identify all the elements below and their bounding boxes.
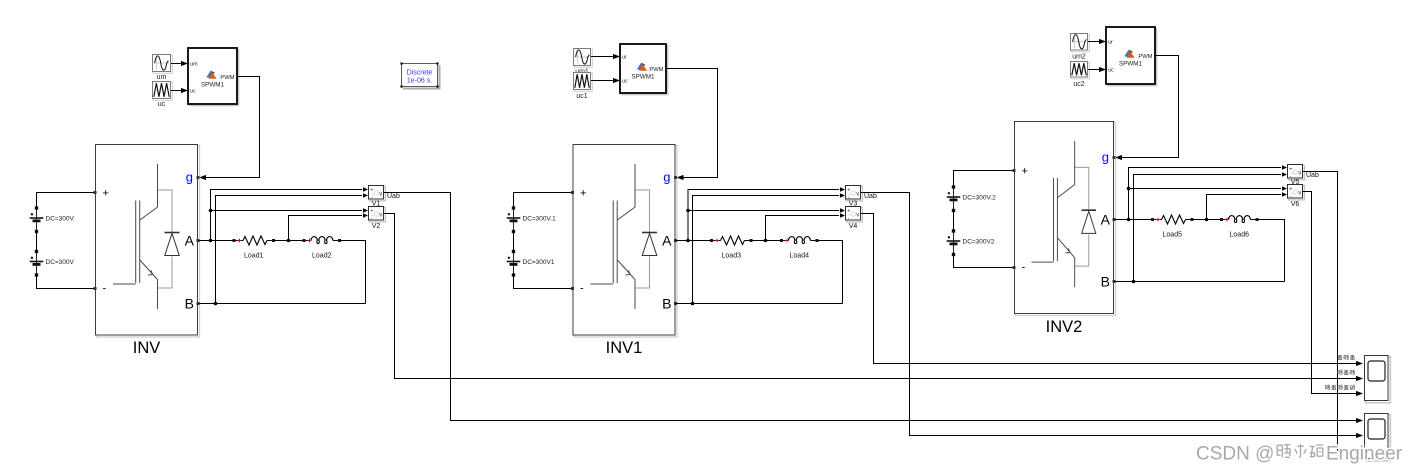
- node B2 junction: [691, 302, 695, 306]
- inverter subsystem INV1: [571, 145, 677, 357]
- wire battery top to INV +: [37, 193, 96, 209]
- wire load junction3 to V6 -: [1207, 192, 1288, 219]
- wire load junction to V2 -: [289, 213, 369, 240]
- svg-text:SPWM1: SPWM1: [201, 82, 225, 89]
- wire SPWM1 u3 PWM to INV2 g: [1115, 56, 1179, 161]
- svg-text:A: A: [1101, 212, 1111, 228]
- inverter subsystem INV2: [1013, 122, 1116, 337]
- svg-text:SPWM1: SPWM1: [1119, 61, 1143, 68]
- watermark CSDN: [1196, 444, 1403, 465]
- node A3 junction: [1127, 218, 1131, 222]
- wire node A3 to V6 +: [1129, 186, 1288, 190]
- wire um1 to SPWM1 u2: [591, 54, 620, 59]
- svg-text:Load3: Load3: [722, 253, 742, 260]
- svg-text:uc1: uc1: [576, 93, 587, 100]
- wire loop bottom3 to INV2 B: [1114, 281, 1285, 283]
- svg-text:+: +: [1022, 165, 1028, 177]
- svg-text:-: -: [848, 215, 850, 221]
- wire V1 Uab out to Scope2 in1: [384, 193, 1363, 424]
- resistor Load5: [1151, 215, 1194, 239]
- svg-text:-: -: [103, 283, 107, 295]
- svg-text:PWM: PWM: [649, 67, 663, 73]
- MATLAB function block SPWM1 u1: [188, 48, 239, 106]
- node A junction: [209, 239, 213, 243]
- svg-text:Load5: Load5: [1163, 232, 1183, 239]
- triangle wave source uc2: [1071, 62, 1090, 89]
- node Load5-Load6 junction: [1205, 218, 1209, 222]
- scope block Scope1: [1365, 356, 1391, 403]
- svg-text:Uab: Uab: [864, 193, 877, 200]
- svg-text:uc: uc: [622, 79, 628, 85]
- svg-text:v: v: [379, 212, 382, 218]
- svg-text:+: +: [580, 187, 586, 199]
- wire uc to SPWM1 u1: [171, 88, 188, 93]
- label danjixing at Scope1 in2: [1338, 370, 1355, 375]
- svg-text:v: v: [856, 191, 859, 197]
- triangle wave source uc1: [574, 73, 593, 101]
- wire node A2 to V4 +: [688, 208, 845, 212]
- DC voltage source DC=300V.: [30, 206, 76, 233]
- svg-text:INV: INV: [133, 339, 161, 357]
- wire Load3 to Load4: [751, 240, 782, 242]
- wire V5 Uab out to Scope2 in3: [1303, 172, 1363, 454]
- node B junction: [214, 302, 218, 306]
- voltage measurement V2: [369, 207, 386, 230]
- svg-text:+: +: [847, 208, 850, 214]
- wire between batteries group3: [953, 211, 955, 232]
- svg-text:V4: V4: [849, 223, 858, 230]
- wire SPWM1 u1 PWM to INV g: [199, 77, 260, 181]
- svg-text:DC=300V.1: DC=300V.1: [523, 216, 557, 223]
- wire INV A to Load1: [198, 240, 234, 242]
- svg-text:uc: uc: [158, 101, 166, 108]
- svg-text:g: g: [186, 169, 193, 184]
- svg-text:B: B: [1101, 274, 1110, 290]
- svg-text:v: v: [1298, 190, 1301, 196]
- svg-text:Load1: Load1: [244, 253, 264, 260]
- wire node A to V2 +: [211, 208, 369, 212]
- svg-text:B: B: [662, 296, 671, 312]
- svg-text:CSDN @: CSDN @: [1196, 444, 1274, 465]
- wire Load2 to B loop: [340, 241, 366, 304]
- svg-text:-: -: [580, 283, 584, 295]
- wire battery top to INV1 +: [514, 193, 573, 209]
- resistor Load3: [710, 236, 753, 260]
- wire SPWM1 u2 PWM to INV1 g: [666, 69, 718, 181]
- voltage measurement V3: [846, 186, 877, 208]
- svg-text:DC=300V.2: DC=300V.2: [963, 195, 997, 202]
- node Load1-Load2 junction: [287, 239, 291, 243]
- wire um to SPWM1 u1: [171, 61, 188, 66]
- svg-text:uc2: uc2: [1073, 81, 1084, 88]
- label shuangjixing at Scope1 in1: [1338, 355, 1355, 360]
- DC voltage source DC=300V2: [947, 229, 995, 256]
- wire battery bottom to INV -: [37, 275, 96, 289]
- wire V4 out to Scope1 in1: [861, 214, 1363, 367]
- wire Load5 to Load6: [1192, 219, 1222, 221]
- svg-text:DC=300V: DC=300V: [46, 259, 75, 266]
- svg-text:g: g: [1102, 149, 1109, 164]
- svg-text:Load2: Load2: [312, 253, 332, 260]
- wire node B up to V1 -: [216, 193, 369, 303]
- resistor Load1: [233, 236, 276, 260]
- wire V6 out to Scope1 in3: [1303, 192, 1363, 397]
- svg-text:v: v: [856, 212, 859, 218]
- triangle wave source uc: [153, 82, 173, 109]
- MATLAB function block SPWM1 u2: [620, 44, 668, 95]
- svg-text:+: +: [370, 187, 373, 193]
- svg-text:-: -: [848, 194, 850, 200]
- svg-text:A: A: [185, 233, 195, 249]
- wire Load4 to B2 loop: [817, 241, 843, 304]
- svg-text:-: -: [371, 215, 373, 221]
- wire between batteries: [36, 232, 38, 252]
- wire battery bottom to INV1 -: [514, 275, 573, 289]
- svg-text:V6: V6: [1291, 201, 1300, 208]
- sine wave source um: [153, 55, 173, 82]
- svg-text:uc: uc: [1108, 68, 1114, 74]
- svg-text:1e-06 s.: 1e-06 s.: [407, 78, 432, 85]
- wire node B3 up to V5 -: [1134, 172, 1288, 281]
- wire Load1 to Load2: [274, 240, 305, 242]
- svg-text:SPWM1: SPWM1: [631, 74, 655, 81]
- wire node A2 up to V3 +: [688, 187, 845, 240]
- DC voltage source DC=300V.2: [947, 185, 996, 212]
- svg-text:ur: ur: [622, 55, 627, 61]
- svg-text:um: um: [157, 74, 167, 81]
- voltage measurement V4: [846, 207, 863, 230]
- DC voltage source DC=300V.1: [507, 206, 556, 233]
- svg-text:-: -: [371, 194, 373, 200]
- inductor Load4: [780, 237, 819, 260]
- svg-text:um: um: [190, 62, 198, 68]
- wire V3 Uab out to Scope2 in2: [861, 193, 1363, 439]
- wire uc1 to SPWM1 u2: [591, 78, 620, 83]
- node B3 junction: [1132, 280, 1136, 284]
- svg-text:INV2: INV2: [1046, 318, 1083, 336]
- wire load junction2 to V4 -: [766, 213, 846, 240]
- discrete solver block: [400, 62, 440, 89]
- wire battery bottom to INV2 -: [954, 255, 1015, 268]
- svg-text:DC=300V.: DC=300V.: [46, 216, 76, 223]
- svg-text:A: A: [662, 233, 672, 249]
- svg-text:+: +: [847, 187, 850, 193]
- svg-text:B: B: [185, 296, 194, 312]
- DC voltage source DC=300V: [30, 250, 75, 277]
- wire loop bottom2 to INV1 B: [676, 303, 843, 305]
- voltage measurement V5: [1288, 165, 1319, 186]
- svg-text:Load6: Load6: [1230, 232, 1250, 239]
- svg-text:Load4: Load4: [790, 253, 810, 260]
- label danjixingbeipin at Scope1 in3: [1325, 385, 1354, 390]
- DC voltage source DC=300V1: [507, 250, 555, 277]
- svg-text:-: -: [1022, 262, 1026, 274]
- svg-text:+: +: [103, 187, 109, 199]
- node A branch junction: [209, 209, 213, 213]
- node A2 junction: [686, 239, 690, 243]
- svg-text:Uab: Uab: [1306, 172, 1319, 179]
- voltage measurement V1: [369, 186, 400, 208]
- wire node B2 up to V3 -: [693, 193, 846, 303]
- voltage measurement V6: [1288, 185, 1305, 208]
- sine wave source um2: [1071, 34, 1090, 61]
- wire INV2 A to Load5: [1114, 219, 1153, 221]
- svg-text:PWM: PWM: [1138, 54, 1152, 60]
- wire V2 out to Scope1 in2: [384, 214, 1363, 382]
- svg-text:INV1: INV1: [606, 339, 643, 357]
- MATLAB function block SPWM1 u3: [1106, 27, 1157, 86]
- svg-text:ur: ur: [1108, 40, 1113, 46]
- wire um2 to SPWM1 u3: [1088, 39, 1106, 44]
- wire between batteries group2: [513, 232, 515, 252]
- svg-text:Discrete: Discrete: [407, 70, 433, 77]
- svg-text:+: +: [1289, 166, 1292, 172]
- wire battery top to INV2 +: [954, 171, 1015, 188]
- wire Load6 to B3 loop: [1258, 220, 1285, 282]
- svg-text:v: v: [1298, 170, 1301, 176]
- wire loop bottom to INV B: [198, 303, 366, 305]
- svg-text:Engineer: Engineer: [1326, 444, 1403, 465]
- wire node A3 up to V5 +: [1129, 165, 1288, 219]
- wire node A up to V1 +: [211, 187, 369, 240]
- wire uc2 to SPWM1 u3: [1088, 67, 1106, 72]
- svg-text:+: +: [370, 208, 373, 214]
- node A2 branch junction: [686, 209, 690, 213]
- svg-text:v: v: [379, 191, 382, 197]
- svg-text:um2: um2: [1072, 54, 1086, 61]
- inductor Load6: [1220, 216, 1259, 239]
- node A3 branch junction: [1127, 187, 1131, 191]
- svg-text:Uab: Uab: [387, 193, 400, 200]
- inductor Load2: [303, 237, 342, 260]
- svg-text:g: g: [663, 169, 670, 184]
- scope block Scope2: [1365, 414, 1391, 461]
- svg-text:PWM: PWM: [220, 75, 234, 81]
- svg-text:uc: uc: [190, 89, 196, 95]
- svg-text:-: -: [1290, 193, 1292, 199]
- inverter subsystem INV: [94, 145, 200, 357]
- sine wave source um1: [574, 49, 593, 68]
- wire INV1 A to Load3: [676, 240, 712, 242]
- node Load3-Load4 junction: [764, 239, 768, 243]
- label um1: [575, 69, 589, 76]
- svg-text:+: +: [1289, 186, 1292, 192]
- svg-text:DC=300V2: DC=300V2: [963, 239, 995, 246]
- svg-text:V2: V2: [372, 223, 381, 230]
- svg-text:DC=300V1: DC=300V1: [523, 259, 555, 266]
